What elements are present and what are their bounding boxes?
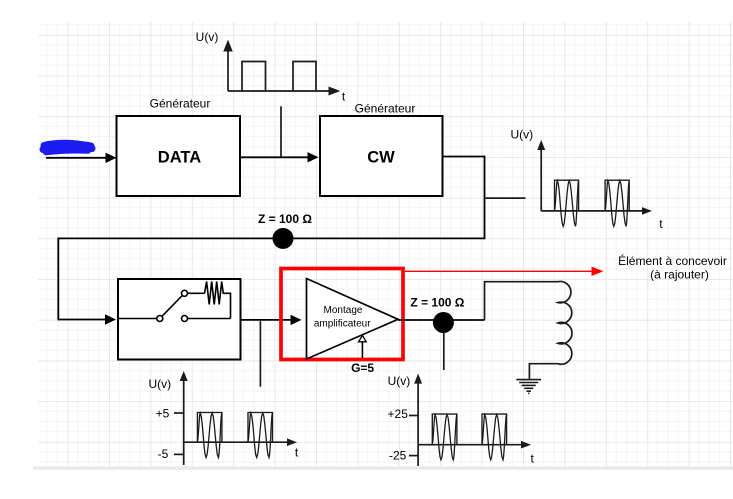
svg-text:U(v): U(v) [510,127,533,141]
svg-text:CW: CW [367,148,395,166]
svg-text:+5: +5 [156,407,170,421]
svg-text:Z = 100 Ω: Z = 100 Ω [258,212,312,226]
svg-text:U(v): U(v) [196,30,219,44]
svg-text:Montage: Montage [324,305,363,316]
svg-text:DATA: DATA [158,148,201,166]
svg-text:-5: -5 [158,447,169,461]
svg-text:G=5: G=5 [351,361,374,375]
svg-text:U(v): U(v) [388,374,411,388]
svg-text:(à rajouter): (à rajouter) [650,267,709,281]
svg-text:U(v): U(v) [148,377,171,391]
svg-text:+25: +25 [388,407,409,421]
svg-text:Générateur: Générateur [355,102,416,116]
svg-text:-25: -25 [389,449,407,463]
svg-text:Z = 100 Ω: Z = 100 Ω [410,296,464,310]
svg-text:Élément à concevoir: Élément à concevoir [618,253,727,268]
svg-text:amplificateur: amplificateur [314,318,371,329]
svg-text:Générateur: Générateur [150,97,211,111]
